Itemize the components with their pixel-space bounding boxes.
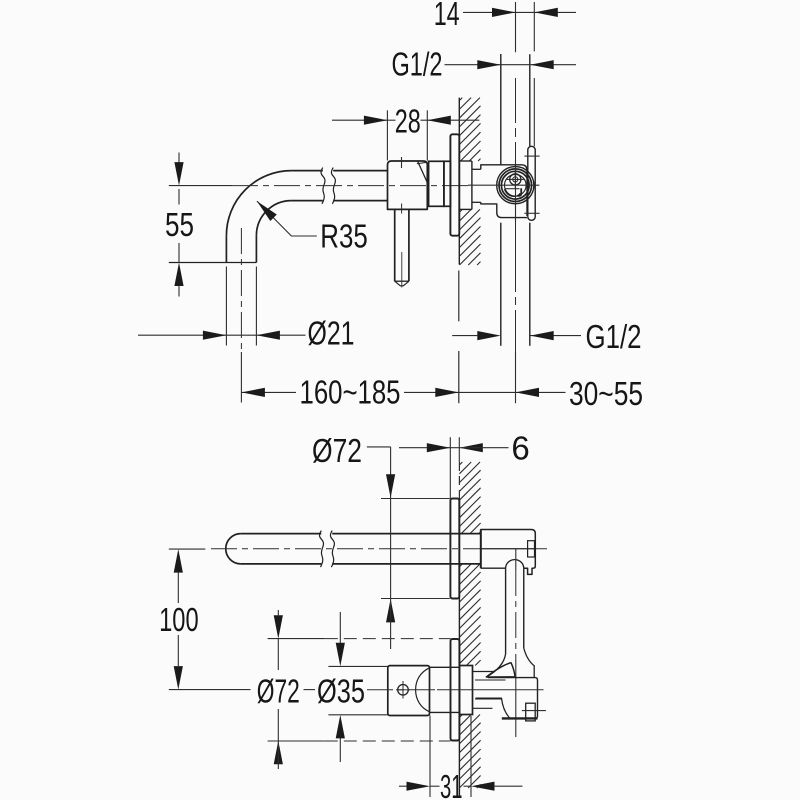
svg-text:55: 55 (165, 206, 194, 243)
svg-text:Ø72: Ø72 (312, 432, 362, 469)
svg-text:31: 31 (440, 768, 463, 800)
svg-text:R35: R35 (320, 218, 368, 255)
svg-text:6: 6 (511, 429, 529, 466)
svg-text:Ø21: Ø21 (308, 314, 355, 351)
svg-text:160~185: 160~185 (300, 373, 401, 410)
svg-text:G1/2: G1/2 (392, 45, 443, 82)
svg-text:G1/2: G1/2 (586, 318, 642, 355)
svg-text:30~55: 30~55 (569, 375, 643, 412)
svg-text:Ø35: Ø35 (317, 672, 365, 709)
svg-text:100: 100 (159, 601, 199, 638)
svg-text:Ø72: Ø72 (257, 672, 300, 709)
svg-text:14: 14 (434, 0, 460, 32)
svg-text:28: 28 (395, 102, 421, 139)
